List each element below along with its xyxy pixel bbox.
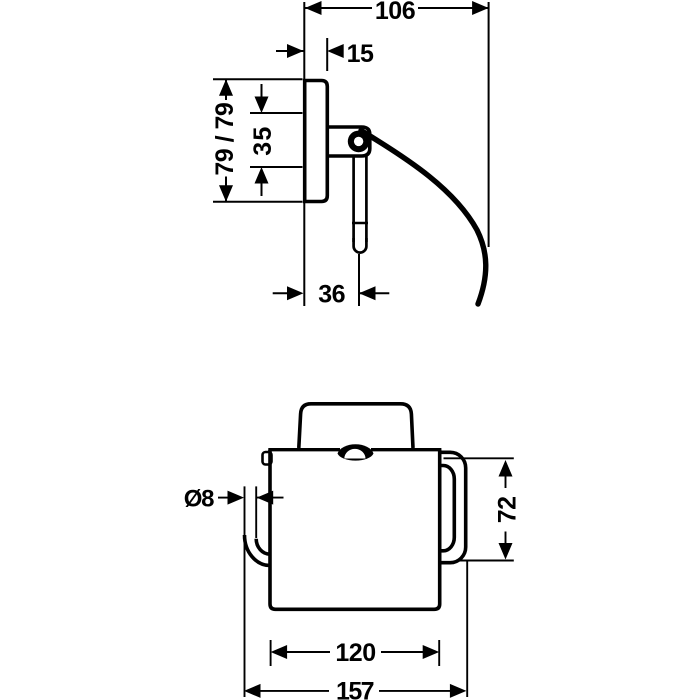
svg-text:35: 35 [249, 125, 277, 155]
right bar outer [440, 452, 466, 562]
wire left spindle inner line [255, 486, 257, 538]
wire 120 left extension [270, 640, 272, 666]
arrow 157 left [244, 684, 261, 698]
svg-text:120: 120 [335, 639, 375, 667]
left arm hook outer [245, 535, 271, 566]
wire 36 extension line [358, 254, 360, 306]
right bar inner [440, 466, 455, 551]
arrow d8 left [228, 491, 245, 505]
wire 72 top extension [444, 457, 514, 459]
svg-text:15: 15 [347, 40, 374, 68]
wire 35 top extension line [250, 112, 303, 114]
wire 36 dimension line right tail [359, 292, 389, 294]
arrow 120 right [423, 645, 440, 659]
wire 35 bottom extension line [250, 166, 303, 168]
wire 79/79 dimension line [225, 79, 227, 100]
wire 72 bottom extension [458, 560, 514, 562]
wire wall extension line [303, 2, 305, 306]
spindle joint tick [352, 222, 368, 225]
arrow 35 top [255, 97, 269, 114]
arrow 157 right [450, 684, 467, 698]
arrow 15 left [287, 44, 304, 58]
arrow 72 top [499, 460, 513, 477]
arrow 35 bottom [255, 167, 269, 184]
wire 35 dimension line top [261, 84, 263, 100]
arrow 36 left [287, 286, 304, 300]
wire d8 dim left tail [218, 497, 229, 499]
wire 79 top extension line [213, 78, 303, 80]
wall plate side view [305, 81, 328, 202]
svg-text:Ø8: Ø8 [184, 486, 214, 513]
wire 35 dimension line bottom [261, 180, 263, 196]
wire 36 dimension line left tail [273, 292, 290, 294]
wire 157 right extension [466, 560, 468, 697]
hinge tab [263, 452, 272, 465]
spindle rounded cap [354, 238, 367, 253]
arrow 79 top [219, 79, 233, 96]
svg-text:106: 106 [375, 0, 415, 25]
wire 15 tick line [326, 38, 328, 71]
pivot disc [348, 131, 370, 153]
flap curve side view [361, 131, 486, 305]
arrow 15 right [327, 44, 344, 58]
wire 106 right extension line [488, 2, 490, 247]
svg-text:157: 157 [336, 678, 374, 700]
svg-text:79 / 79: 79 / 79 [211, 103, 239, 176]
arrow 36 right [359, 286, 376, 300]
back plate front view [299, 404, 413, 448]
wire 157 dim line [259, 690, 329, 692]
cover left edge [270, 450, 440, 610]
wire left spindle line / 157 left extension [244, 486, 246, 697]
wire 120 right extension [438, 640, 440, 666]
wire 120 dim line [285, 651, 330, 653]
cover top edge [268, 448, 340, 451]
svg-text:72: 72 [494, 496, 522, 523]
spindle side view [352, 156, 355, 242]
bracket arm side view [327, 127, 370, 156]
left arm hook inner [256, 539, 270, 554]
svg-text:36: 36 [318, 281, 345, 309]
wire 15 dimension line left tail [276, 50, 304, 52]
arrow 106 left [305, 1, 322, 15]
wire 106 dimension line [305, 7, 372, 9]
arrow 72 bottom [499, 543, 513, 560]
arrow 79 bottom [219, 185, 233, 202]
arrow 106 right [472, 1, 489, 15]
arrow d8 right [257, 491, 274, 505]
wire d8 dim right tail [257, 497, 284, 499]
thumb notch blob [338, 444, 374, 460]
wire 72 dim line top [505, 474, 507, 488]
arrow 120 left [271, 645, 288, 659]
wire 72 dim line bottom [505, 532, 507, 546]
wire 79 bottom extension line [213, 201, 303, 203]
